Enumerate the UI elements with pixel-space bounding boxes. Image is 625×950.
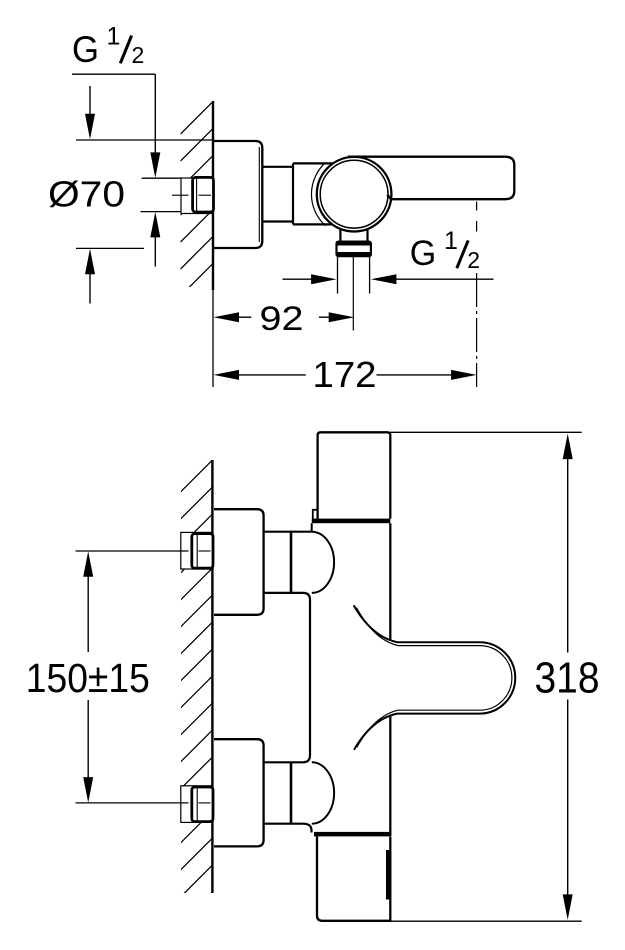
svg-text:92: 92: [260, 300, 304, 338]
svg-text:2: 2: [132, 42, 145, 68]
svg-text:G: G: [72, 29, 99, 70]
svg-text:1: 1: [444, 227, 458, 255]
svg-text:150±15: 150±15: [26, 655, 150, 701]
svg-text:318: 318: [535, 654, 600, 703]
svg-text:1: 1: [107, 23, 121, 51]
svg-text:172: 172: [313, 354, 377, 395]
svg-text:G: G: [410, 233, 437, 273]
svg-text:2: 2: [467, 247, 480, 273]
svg-text:Ø70: Ø70: [48, 173, 125, 214]
